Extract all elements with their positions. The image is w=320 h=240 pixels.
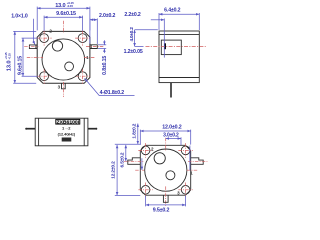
dimension 6.4 bbox=[159, 8, 199, 30]
vertical centerline segments bbox=[62, 21, 64, 97]
svg-text:1.8±0.2: 1.8±0.2 bbox=[131, 123, 137, 138]
vertical centerline segments bottom view bbox=[165, 138, 167, 207]
dimension 9.6 top bbox=[44, 11, 83, 31]
svg-text:12.2±0.2: 12.2±0.2 bbox=[110, 161, 116, 179]
svg-text:0.8±0.15: 0.8±0.15 bbox=[102, 56, 108, 75]
svg-text:1→2: 1→2 bbox=[62, 125, 71, 130]
svg-text:2: 2 bbox=[151, 146, 154, 151]
dimension 13.0 left (vertical) bbox=[4, 31, 36, 83]
bottom tab top view bbox=[62, 83, 66, 89]
svg-text:(12.4GHz): (12.4GHz) bbox=[58, 131, 76, 136]
left lead centerline bbox=[24, 45, 38, 47]
svg-text:9.6±0.15: 9.6±0.15 bbox=[56, 11, 76, 17]
dimension 6.5 (vertical) bbox=[120, 145, 126, 168]
package outline top view bbox=[37, 31, 90, 83]
screw circle B bbox=[65, 62, 74, 71]
bottom pin bbox=[170, 83, 172, 98]
front view right lead bbox=[88, 128, 97, 130]
label 1.0x1.0 with leader bbox=[11, 13, 35, 44]
leader 4-dia1.8 holes bbox=[85, 78, 135, 96]
left lead centerline bbox=[124, 160, 144, 162]
svg-text:13.0: 13.0 bbox=[7, 61, 13, 72]
mounting holes bottom view bbox=[141, 146, 190, 194]
dimension 13.0 top bbox=[37, 1, 90, 31]
svg-text:1.0×1.0: 1.0×1.0 bbox=[11, 13, 28, 19]
svg-text:9.5±0.2: 9.5±0.2 bbox=[153, 208, 170, 214]
dimension 9.6 left (vertical) bbox=[18, 38, 38, 76]
svg-text:3: 3 bbox=[177, 191, 180, 196]
svg-text:6.5±0.2: 6.5±0.2 bbox=[120, 152, 126, 167]
dimension 3.0 bbox=[163, 133, 181, 146]
left lead top view bbox=[29, 45, 37, 49]
dimension 12.2 (vertical) bbox=[110, 145, 140, 196]
front view body bbox=[35, 118, 88, 146]
marking box S/N bbox=[62, 138, 72, 142]
svg-text:-0.15: -0.15 bbox=[7, 53, 11, 60]
horizontal centerline segments bottom view bbox=[135, 169, 197, 171]
right lead centerline bbox=[188, 160, 207, 162]
left lead bottom view bbox=[128, 158, 141, 165]
name label plate bbox=[56, 119, 80, 124]
shared top extension line bbox=[115, 143, 141, 145]
screw circle B bottom bbox=[166, 171, 175, 180]
dimension 12.0 bbox=[140, 124, 190, 170]
svg-text:2.2±0.2: 2.2±0.2 bbox=[124, 12, 140, 18]
side view body bbox=[159, 31, 199, 83]
right lead centerline bbox=[86, 46, 104, 48]
lead cross-section solid bbox=[164, 43, 166, 49]
side view tab recess bbox=[161, 40, 181, 55]
svg-text:2.0±0.2: 2.0±0.2 bbox=[99, 13, 115, 19]
svg-text:-0.15: -0.15 bbox=[67, 4, 74, 8]
dimension 9.5 bbox=[146, 196, 186, 214]
svg-text:1.2±0.05: 1.2±0.05 bbox=[124, 49, 143, 55]
svg-text:ZXB6100I: ZXB6100I bbox=[57, 120, 80, 125]
dimension 2.2 bbox=[124, 12, 164, 57]
front view left lead bbox=[26, 128, 35, 130]
svg-text:4-Ø1.8±0.2: 4-Ø1.8±0.2 bbox=[100, 90, 125, 96]
screw circle A bbox=[52, 41, 62, 51]
svg-text:4.0±0.2: 4.0±0.2 bbox=[129, 27, 134, 42]
dimension 4.0 (vertical) bbox=[129, 27, 158, 47]
cover circle bottom view bbox=[145, 149, 187, 191]
dimension 2.0 lead length bbox=[90, 13, 116, 44]
cover circle bbox=[42, 39, 85, 80]
mounting holes top view bbox=[40, 34, 87, 81]
horizontal centerline edge segments bbox=[27, 57, 96, 59]
screw circle A bottom bbox=[154, 153, 165, 164]
svg-text:12.0±0.2: 12.0±0.2 bbox=[162, 124, 182, 130]
svg-text:3.0±0.2: 3.0±0.2 bbox=[163, 133, 179, 139]
hole crosshairs red bottom view bbox=[138, 143, 193, 197]
right lead bottom view bbox=[191, 158, 204, 165]
hole crosshairs red bbox=[37, 31, 91, 84]
right lead top view bbox=[90, 45, 97, 49]
dimension 0.8 lead thickness (vertical, right of lead) bbox=[98, 40, 108, 75]
notch dimension arrow at left edge bbox=[141, 158, 143, 170]
svg-text:1: 1 bbox=[190, 170, 193, 175]
bottom tab bottom view bbox=[163, 195, 168, 202]
dimension 1.8 (vertical) bbox=[131, 123, 137, 144]
svg-text:6.4±0.2: 6.4±0.2 bbox=[164, 8, 180, 14]
side view centerline bbox=[146, 45, 208, 47]
package outline bottom view bbox=[140, 145, 190, 195]
